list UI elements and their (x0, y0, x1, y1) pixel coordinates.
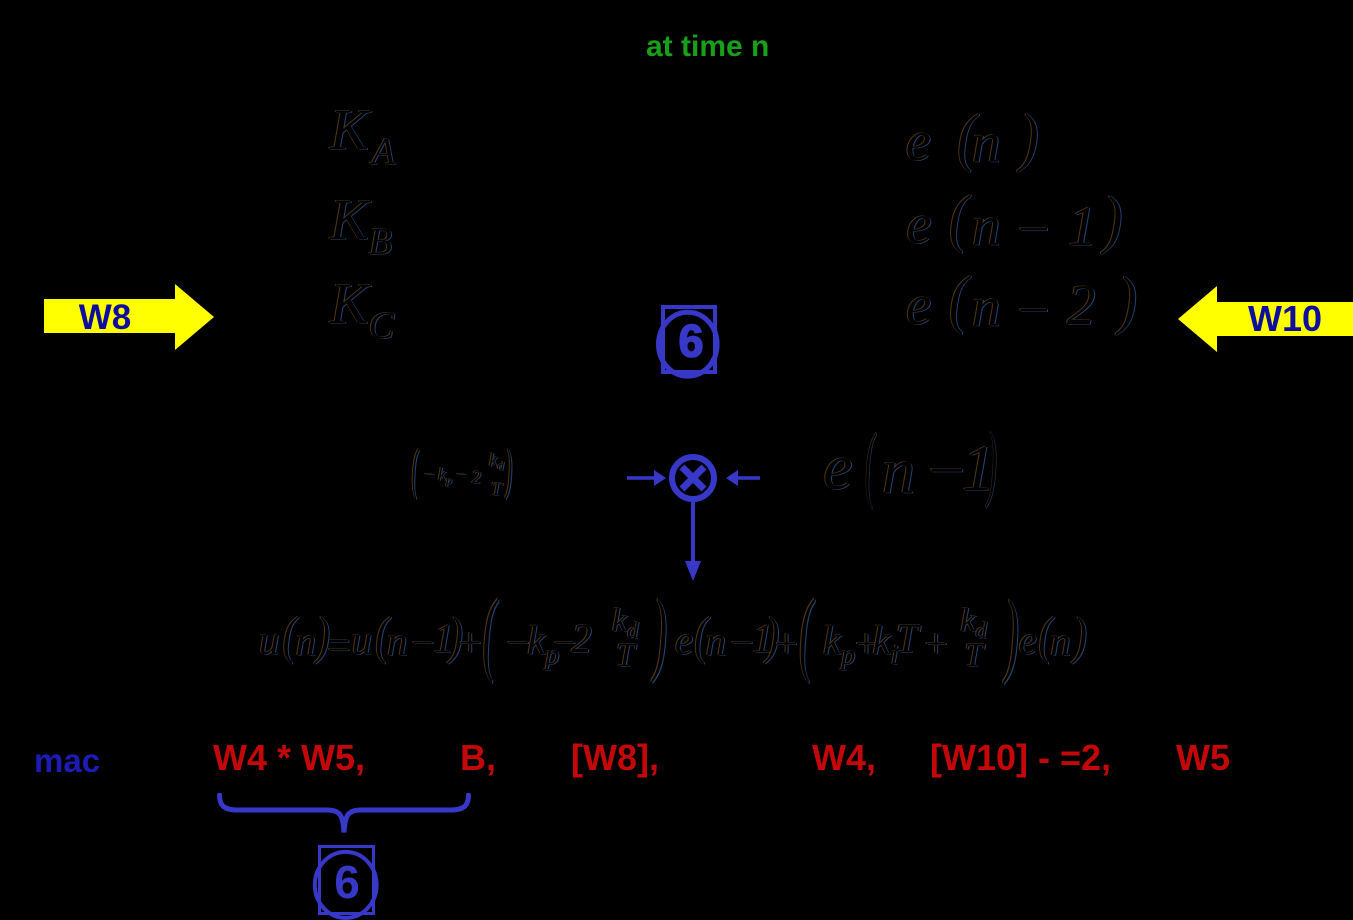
e(n-1) (675, 620, 693, 661)
right in-arrow (738, 476, 760, 479)
marker 6 (top, square + circle) (650, 300, 725, 384)
e(n) (1019, 620, 1037, 661)
error term e(n-1) row2 (906, 196, 931, 253)
yellow arrow W8 (44, 284, 214, 350)
operand B, (460, 740, 496, 776)
coefficient K_B (330, 191, 392, 261)
down out-arrow (691, 502, 695, 564)
big ( (799, 585, 813, 679)
u(n) (259, 620, 280, 661)
left in-arrow (627, 476, 656, 479)
small coefficient formula (-kp - 2 kd/T) (412, 441, 418, 497)
svg-text:W10: W10 (1248, 298, 1322, 339)
multiplier circle-X with arrows (620, 430, 770, 585)
operand W4, (812, 740, 876, 776)
operand W4 * W5, (213, 740, 365, 776)
u(n-1) (352, 620, 373, 661)
marker 6 (bottom, square + circle) (308, 842, 384, 920)
coefficient K_C (330, 275, 394, 345)
blue under-brace (217, 793, 471, 839)
operand [W8], (571, 740, 659, 776)
error term e(n-2) row3 (906, 277, 931, 334)
operand W5 (1176, 740, 1230, 776)
= (325, 625, 353, 666)
+ (456, 622, 484, 663)
operand [W10] - =2, (930, 740, 1111, 776)
large e(n-1) (823, 435, 852, 501)
svg-text:6: 6 (334, 856, 360, 908)
error term e(n) row1 (906, 113, 931, 170)
yellow arrow W10 (1178, 286, 1353, 352)
svg-text:6: 6 (678, 316, 703, 367)
title "at time n" (646, 32, 769, 62)
svg-text:W8: W8 (79, 298, 132, 337)
+ (772, 623, 800, 664)
coefficient K_A (330, 101, 395, 171)
mnemonic "mac" (34, 744, 100, 777)
big ( (483, 585, 497, 679)
